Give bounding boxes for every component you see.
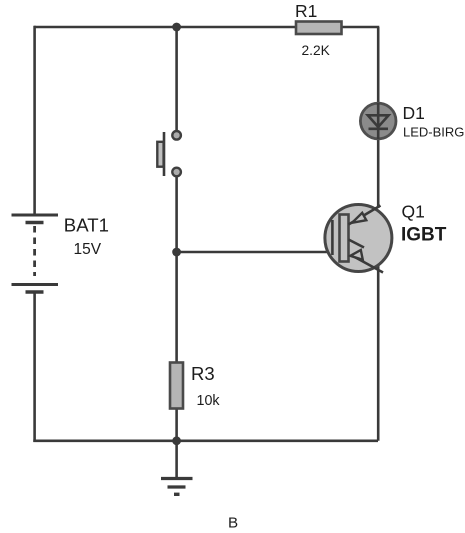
wire middle vertical upper xyxy=(175,27,178,131)
svg-text:BAT1: BAT1 xyxy=(64,214,109,235)
wire left vertical lower xyxy=(33,293,36,442)
gate lead inside xyxy=(331,220,334,255)
collector arrow xyxy=(352,213,366,223)
node junction gate xyxy=(172,248,181,257)
wire right vertical LED-to-Q1 xyxy=(377,138,380,208)
mid segment xyxy=(349,240,365,248)
pushbutton switch xyxy=(157,131,181,176)
wire middle vertical mid xyxy=(175,177,178,364)
ground xyxy=(161,441,193,495)
wire top-left horizontal xyxy=(34,26,296,29)
wire left vertical upper xyxy=(33,26,36,214)
svg-text:IGBT: IGBT xyxy=(401,225,447,246)
resistor R3 xyxy=(170,363,183,409)
LED D1 xyxy=(360,103,396,139)
svg-text:R3: R3 xyxy=(191,363,215,384)
wire top-right horizontal from R1 to corner xyxy=(341,26,379,29)
wire bottom horizontal xyxy=(33,439,378,442)
svg-text:B: B xyxy=(228,514,238,531)
svg-text:D1: D1 xyxy=(403,103,425,123)
wire gate horizontal xyxy=(177,251,333,254)
battery BAT1 xyxy=(12,215,59,292)
collector diagonal xyxy=(349,206,381,225)
transistor Q1 IGBT xyxy=(325,205,392,273)
bar xyxy=(340,215,349,262)
svg-text:Q1: Q1 xyxy=(402,202,425,222)
emitter arrow xyxy=(350,250,363,260)
svg-text:10k: 10k xyxy=(197,393,221,409)
svg-text:R1: R1 xyxy=(295,1,317,21)
svg-text:15V: 15V xyxy=(74,241,102,258)
emitter diagonal xyxy=(351,255,383,273)
resistor R1 xyxy=(296,22,342,35)
node junction top xyxy=(172,23,181,32)
wire middle vertical below R3 xyxy=(175,408,178,441)
svg-text:2.2K: 2.2K xyxy=(302,43,331,58)
svg-text:LED-BIRG: LED-BIRG xyxy=(403,125,464,140)
wire right vertical Q1-to-bottom xyxy=(377,266,380,441)
node junction bottom xyxy=(172,436,181,445)
wire right vertical R1-to-LED xyxy=(377,27,380,104)
